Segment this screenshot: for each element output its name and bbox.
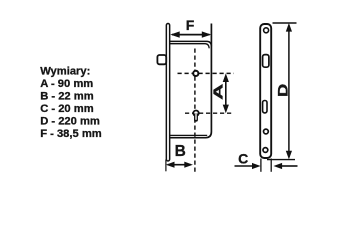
dimension A arrow	[223, 73, 229, 113]
dimension list text	[40, 66, 102, 140]
dimension C right extension line	[270, 159, 272, 172]
svg-text:F - 38,5 mm: F - 38,5 mm	[40, 128, 102, 140]
striker plate front view	[260, 24, 271, 158]
dimension B left extension line	[165, 160, 167, 172]
dimension F arrow	[170, 31, 211, 37]
svg-text:A: A	[211, 84, 226, 100]
dimension D arrow	[286, 23, 292, 159]
plate top screw hole	[264, 28, 269, 33]
dimension C right arrow	[274, 163, 298, 169]
keyhole	[193, 111, 198, 120]
dimension B arrow	[166, 162, 193, 168]
svg-text:B: B	[175, 143, 186, 160]
lock case right edge + bottom	[170, 24, 212, 138]
plate middle screw hole	[264, 129, 269, 134]
spindle horizontal dashed line	[178, 72, 234, 74]
svg-text:F: F	[186, 17, 195, 33]
svg-text:Wymiary:: Wymiary:	[40, 66, 90, 78]
keyhole horizontal dashed line	[185, 112, 234, 114]
svg-text:A - 90 mm: A - 90 mm	[40, 78, 93, 90]
latch bolt	[157, 55, 166, 64]
dimension C left arrow	[235, 163, 261, 169]
faceplate strip side view	[166, 24, 169, 162]
plate lower screw hole	[263, 148, 268, 153]
plate deadbolt slot	[263, 101, 267, 113]
dimension D bottom extension line	[267, 159, 295, 161]
dimension D top extension line	[273, 22, 297, 24]
svg-text:B - 22 mm: B - 22 mm	[40, 91, 94, 103]
spindle hole	[193, 71, 198, 76]
plate latch slot	[263, 55, 269, 68]
svg-text:D - 220 mm: D - 220 mm	[40, 115, 100, 127]
dimension C left extension line	[260, 159, 262, 172]
lock case top inner line	[170, 44, 209, 49]
lock case bottom inner line	[170, 134, 207, 136]
vertical dashed centerline	[194, 49, 196, 174]
svg-text:C: C	[238, 150, 248, 166]
svg-text:C - 20 mm: C - 20 mm	[40, 103, 94, 115]
lock case top outer line	[170, 41, 212, 46]
